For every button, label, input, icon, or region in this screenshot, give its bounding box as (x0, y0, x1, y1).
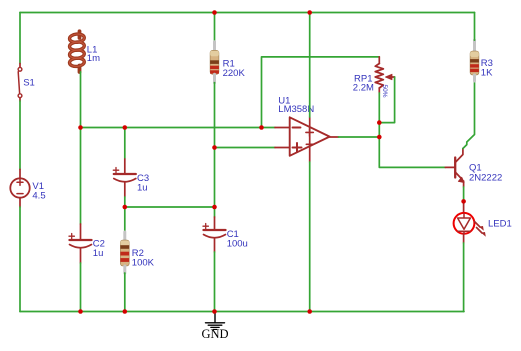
wire output node to Q1 base (379, 137, 445, 167)
wire bottom rail (20, 311, 464, 313)
wire power column bottom (309, 162, 311, 312)
wire node row B (125, 206, 215, 208)
svg-text:4.5: 4.5 (32, 191, 45, 202)
op-amp noninverting input pin (275, 147, 290, 149)
wire wiper return (379, 77, 394, 123)
capacitor C2 (69, 224, 105, 263)
transistor Q1 (455, 149, 502, 188)
svg-text:1u: 1u (137, 183, 148, 194)
wire output to feedback node (339, 136, 380, 138)
wire C3 to node (124, 197, 126, 232)
node top-R1 (212, 10, 217, 15)
svg-text:1K: 1K (481, 67, 493, 78)
wire left rail lower (19, 207, 21, 312)
wire left rail upper (19, 13, 21, 64)
node bottom-power (307, 309, 312, 314)
wire L1 column (80, 72, 82, 224)
transistor Q1 base pin (445, 166, 454, 168)
node bottom-C2 (78, 309, 83, 314)
battery V1 (10, 169, 45, 207)
op-amp U1 (278, 95, 329, 156)
LED1 (454, 201, 512, 243)
node A-branch (259, 125, 264, 130)
junction node dots (78, 10, 466, 314)
wire C2 to bottom (80, 263, 82, 312)
svg-text:1m: 1m (87, 53, 100, 64)
wire RP1 bottom leg (378, 93, 380, 123)
node bottom-GND (212, 309, 217, 314)
wire node row A (81, 127, 276, 129)
wire C1 to bottom (214, 252, 216, 312)
wire R3 top (474, 13, 476, 41)
op-amp inverting input pin (275, 127, 290, 129)
wire R1 column top (214, 13, 216, 42)
resistor R1 (210, 42, 245, 83)
svg-text:GND: GND (201, 327, 228, 341)
node output (377, 135, 382, 140)
op-amp power pin vertical (309, 117, 311, 162)
potentiometer RP1 (353, 57, 395, 98)
svg-text:1u: 1u (93, 248, 104, 259)
svg-text:2N2222: 2N2222 (469, 172, 502, 183)
svg-text:50%: 50% (381, 85, 388, 98)
node wiper (377, 120, 382, 125)
switch S1 (18, 64, 35, 102)
node A-C3 (123, 125, 128, 130)
svg-text:220K: 220K (223, 68, 246, 79)
node bottom-R2 (123, 309, 128, 314)
wire left rail middle (19, 101, 21, 169)
wire C3 column (124, 128, 126, 160)
capacitor C3 (113, 159, 149, 197)
node C-R1 (212, 145, 217, 150)
node B-C1 (212, 205, 217, 210)
wire top rail (20, 12, 475, 14)
node A-L1 (78, 125, 83, 130)
svg-text:LED1: LED1 (488, 219, 512, 230)
wire emitter to LED node (463, 187, 465, 200)
svg-text:100u: 100u (227, 239, 248, 250)
wire branch to RP1 top (262, 57, 380, 128)
wire power column top (309, 13, 311, 118)
wire LED to bottom (463, 243, 465, 312)
wire collector to R3 (463, 81, 475, 149)
wire R1 to C1 (214, 83, 216, 217)
svg-text:100K: 100K (132, 258, 155, 269)
resistor R3 (470, 40, 493, 81)
node B-C3 (123, 205, 128, 210)
node emitter-LED (461, 199, 466, 204)
ground symbol (206, 313, 225, 329)
wire R2 to bottom (124, 273, 126, 312)
resistor R2 (120, 232, 154, 273)
wire noninverting row (215, 147, 276, 149)
wire feedback node to output node (378, 123, 380, 137)
capacitor C1 (203, 217, 248, 252)
svg-text:2.2M: 2.2M (353, 83, 374, 94)
inductor L1 (69, 31, 100, 72)
op-amp output pin (330, 136, 339, 138)
svg-text:S1: S1 (23, 78, 35, 89)
node top-power (307, 10, 312, 15)
